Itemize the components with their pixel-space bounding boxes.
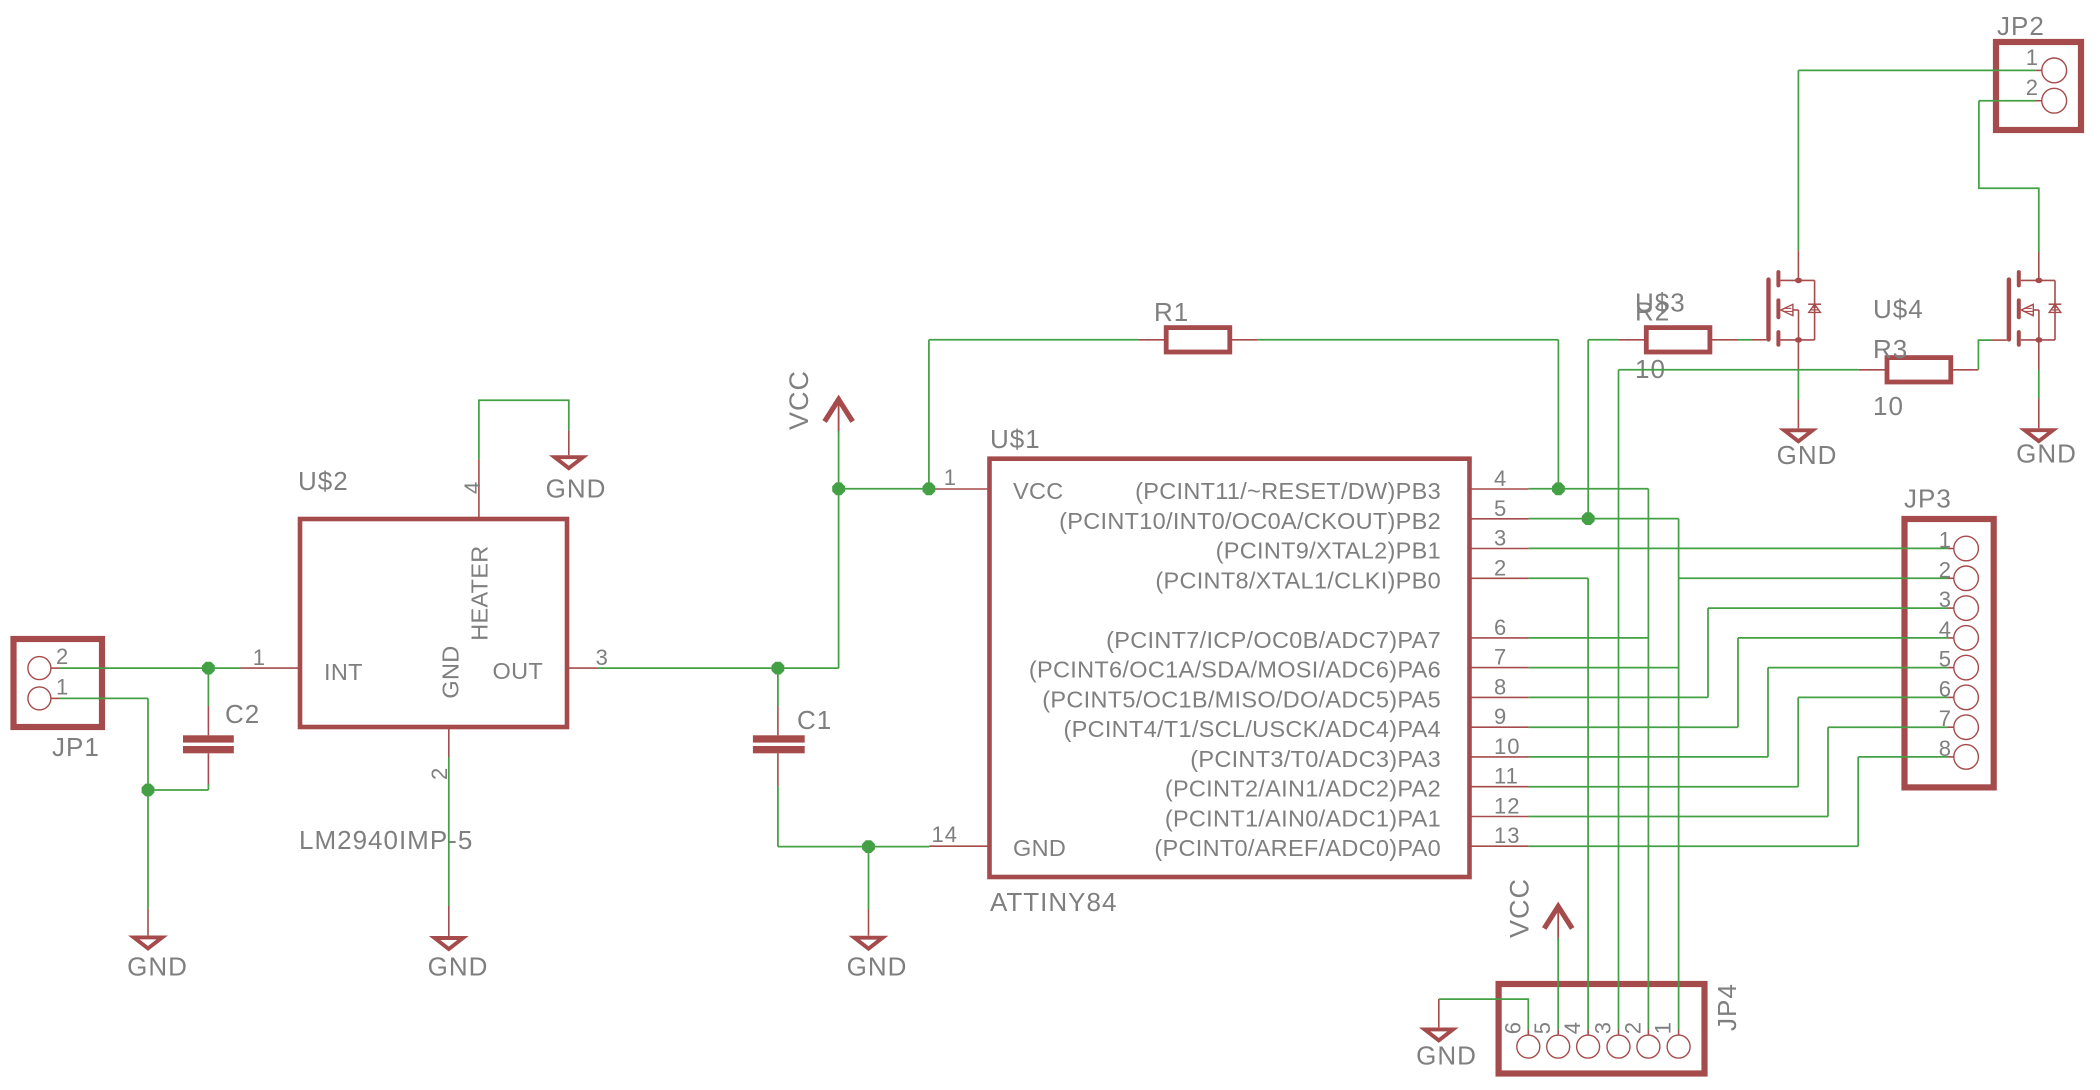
ground GND at U$2 pin2 label [428,951,489,981]
junction dot GND/C2 [142,784,155,797]
wire U$1 row 11 to staircase column [1529,816,1828,818]
regulator U$2 pin name GND [438,645,464,698]
connector JP3 pin 1 stub [1948,548,1954,550]
mcu U$1 pin 13 number [1494,823,1520,848]
junction dot R2/pin5 [1582,512,1595,525]
wire staircase to JP3 row [1768,667,1948,669]
transistor U$4 drain pin up [2038,252,2040,280]
wire staircase to JP3 row [1738,637,1948,639]
regulator U$2 pin 1 number [253,645,266,670]
resistor R2 value 10 [1635,354,1666,384]
mcu U$1 outline [990,459,1470,877]
resistor R1 label [1154,297,1189,327]
transistor U$3 drain junction dot [1795,278,1802,284]
svg-text:12: 12 [1494,794,1520,819]
ground GND at U$3 label [1777,440,1838,470]
connector JP4 pin 2 number [1620,1021,1645,1034]
connector JP3 pin 1 number [1939,528,1952,553]
svg-text:(PCINT2/AIN1/ADC2)PA2: (PCINT2/AIN1/ADC2)PA2 [1165,776,1441,802]
wire VCC to JP4 pin5 [1557,938,1559,1030]
connector JP3 pin 1 circle [1954,536,1979,561]
svg-text:C1: C1 [797,705,832,735]
connector JP1 name label [52,732,100,762]
connector JP4 pin 5 circle [1547,1035,1570,1058]
svg-text:8: 8 [1494,674,1507,699]
transistor U$4 source junction dot [2035,337,2042,343]
transistor U$3 drain link [1780,279,1814,281]
wire pin4 row to JP4 pin2 column [1529,488,1649,490]
supply VCC near U$1 label [784,370,814,430]
svg-text:U$1: U$1 [990,424,1041,454]
resistor R3 right stub [1951,369,1979,371]
svg-text:GND: GND [428,951,489,981]
wire R3 left column down to JP4 pin3 [1618,370,1620,1030]
mcu U$1 pin 12 number [1494,794,1520,819]
wire VCC rail up to R1 [928,340,930,489]
wire VOUT from U$2 OUT [597,667,839,669]
connector JP4 pin 4 circle [1577,1035,1600,1058]
regulator U$2 outline [300,519,567,727]
capacitor C2 bottom pin [207,753,209,786]
mcu U$1 pin name PA2 [1165,776,1441,802]
connector JP3 pin 7 stub [1948,726,1954,728]
capacitor C2 top pin [207,706,209,735]
svg-text:(PCINT10/INT0/OC0A/CKOUT)PB2: (PCINT10/INT0/OC0A/CKOUT)PB2 [1059,508,1441,534]
connector JP1 pin 1 circle [28,687,51,710]
svg-text:(PCINT3/T0/ADC3)PA3: (PCINT3/T0/ADC3)PA3 [1190,746,1441,772]
svg-text:(PCINT11/~RESET/DW)PB3: (PCINT11/~RESET/DW)PB3 [1135,478,1441,504]
capacitor C2 bottom plate [183,746,234,753]
connector JP4 pin 3 number [1591,1021,1616,1034]
wire U$1 row 12 to staircase column [1529,845,1859,847]
ground GND at JP1 pin stub [147,909,149,936]
mcu U$1 pin 7 stub [1470,667,1529,669]
resistor R3 body [1887,358,1951,382]
transistor U$3 channel source segment [1776,332,1780,345]
resistor R1 right stub [1230,339,1258,341]
svg-text:2: 2 [56,644,69,669]
mcu U$1 pin 8 number [1494,674,1507,699]
svg-text:1: 1 [1651,1021,1676,1034]
ground GND at C1 triangle [854,938,882,949]
wire C1 bottom to GND junction [778,846,869,848]
svg-text:2: 2 [1620,1021,1645,1034]
connector JP3 name label [1904,484,1952,514]
mcu U$1 pin 4 stub [1470,488,1529,490]
mcu U$1 pin name PA5 [1042,686,1441,712]
wire R1 column down to pin4 row [1557,340,1559,489]
regulator U$2 pin 2 GND stub [448,727,450,757]
connector JP4 pin 1 circle [1667,1035,1690,1058]
mcu U$1 pin 1 VCC stub [929,488,989,490]
connector JP3 pin 2 number [1939,557,1952,582]
transistor U$3 channel body segment [1776,300,1780,317]
svg-text:C2: C2 [225,699,260,729]
wire U$4 source to ground [2038,370,2040,399]
regulator U$2 pin 3 OUT stub [567,667,597,669]
mcu U$1 pin name VCC [1013,478,1064,504]
wire staircase to JP3 row [1828,726,1948,728]
transistor U$3 gate bar [1766,280,1770,340]
connector JP3 pin 3 stub [1948,607,1954,609]
svg-text:3: 3 [1494,526,1507,551]
wire pin2 row to JP4 pin4 column [1529,577,1589,579]
mcu U$1 pin 7 number [1494,645,1507,670]
mcu U$1 pin name PB2 [1059,508,1441,534]
wire VIN branch to C2 [207,668,209,706]
connector JP4 pin 6 stub [1527,1030,1529,1036]
mcu U$1 pin name PA1 [1165,806,1441,832]
ground GND at JP1 label [127,951,188,981]
ground GND at HEATER triangle [555,457,583,468]
transistor U$4 channel drain segment [2017,272,2021,285]
mcu U$1 pin name PA4 [1063,716,1441,742]
svg-text:JP1: JP1 [52,732,100,762]
svg-text:JP3: JP3 [1904,484,1952,514]
supply VCC near JP4 arrow [1544,907,1572,940]
mcu U$1 pin 6 number [1494,615,1507,640]
svg-text:6: 6 [1494,615,1507,640]
svg-text:5: 5 [1494,496,1507,521]
ground GND at U$4 stub [2038,399,2040,429]
ground GND at JP4 stub [1438,999,1440,1027]
wire staircase column x1828 up [1827,727,1829,816]
connector JP4 pin 1 number [1651,1021,1676,1034]
wire U$1 row 10 to staircase column [1529,786,1799,788]
svg-text:(PCINT7/ICP/OC0B/ADC7)PA7: (PCINT7/ICP/OC0B/ADC7)PA7 [1106,627,1441,653]
connector JP3 pin 7 circle [1954,715,1979,740]
svg-text:6: 6 [1500,1021,1525,1034]
ground GND at U$4 label [2016,438,2077,468]
svg-text:(PCINT6/OC1A/SDA/MOSI/ADC6)PA6: (PCINT6/OC1A/SDA/MOSI/ADC6)PA6 [1029,657,1441,683]
svg-text:U$4: U$4 [1873,294,1924,324]
wire U$1 row 8 to staircase column [1529,726,1738,728]
mcu U$1 pin name PA0 [1154,835,1441,861]
wire U$1 row 7 to staircase column [1529,696,1708,698]
capacitor C1 bottom pin [777,753,779,786]
connector JP3 pin 6 number [1939,676,1952,701]
wire staircase column x1738 up [1737,638,1739,727]
svg-text:10: 10 [1494,734,1520,759]
ground GND at JP1 triangle [134,937,162,948]
junction dot VOUT/C1 [772,662,785,675]
mcu U$1 pin name GND [1013,835,1066,861]
connector JP4 outline [1499,984,1705,1074]
transistor U$4 gate pin stub [1992,339,2007,341]
connector JP3 pin 2 stub [1948,577,1954,579]
connector JP2 pin 2 stub [2036,100,2042,102]
resistor R2 label [1635,297,1670,327]
wire C1 bottom down [777,786,779,847]
ground GND at U$2 pin2 triangle [435,938,463,949]
wire JP4 pin1 column down [1678,519,1680,1030]
resistor R1 body [1166,328,1230,352]
connector JP2 pin 1 stub [2036,69,2042,71]
connector JP1 pin 2 stub [51,667,59,669]
transistor U$3 source pin down [1797,340,1799,370]
svg-text:14: 14 [932,822,958,847]
wire pin5 row to JP4 pin1 column [1529,518,1679,520]
transistor U$3 name label [1635,288,1686,318]
connector JP3 pin 4 number [1939,617,1952,642]
svg-text:R3: R3 [1873,334,1908,364]
connector JP2 outline [1996,42,2081,130]
mcu U$1 pin 2 number [1494,555,1507,580]
capacitor C1 label [797,705,832,735]
transistor U$4 drain link [2021,279,2055,281]
connector JP1 pin 1 stub [51,697,59,699]
transistor U$3 bulk arrow [1781,304,1799,340]
wire GND to C2 bottom [207,784,209,790]
mcu U$1 pin 2 stub [1470,577,1529,579]
connector JP1 pin 2 label [56,644,69,669]
transistor U$3 body diode symbol [1808,304,1821,312]
wire JP4 pin2 column down [1647,489,1649,1030]
connector JP3 pin 6 circle [1954,685,1979,710]
mcu U$1 pin 14 number [932,822,958,847]
connector JP3 pin 3 number [1939,587,1952,612]
wire U$1 row 9 to staircase column [1529,756,1768,758]
resistor R3 label [1873,334,1908,364]
resistor R2 left stub [1619,339,1647,341]
svg-text:2: 2 [2026,75,2039,100]
mcu U$1 pin 3 number [1494,526,1507,551]
ground GND at HEATER stub [568,431,570,456]
connector JP3 pin 8 number [1939,736,1952,761]
mcu U$1 pin 1 number [944,465,957,490]
mcu U$1 pin 14 GND stub [929,845,989,847]
regulator U$2 pin name INT [324,659,363,685]
mcu U$1 pin 11 stub [1470,786,1529,788]
svg-text:GND: GND [127,951,188,981]
svg-text:3: 3 [596,645,609,670]
mcu U$1 pin name PA3 [1190,746,1441,772]
connector JP4 pin 2 circle [1637,1035,1660,1058]
wire GND down JP1 [147,698,149,790]
svg-text:(PCINT0/AREF/ADC0)PA0: (PCINT0/AREF/ADC0)PA0 [1154,835,1441,861]
wire PA6 row to column [1529,667,1679,669]
ground GND at JP4 triangle [1425,1029,1453,1040]
capacitor C1 top pin [777,706,779,735]
resistor R2 gate pin stub [1752,339,1766,341]
svg-text:(PCINT4/T1/SCL/USCK/ADC4)PA4: (PCINT4/T1/SCL/USCK/ADC4)PA4 [1063,716,1441,742]
svg-text:1: 1 [944,465,957,490]
wire staircase column x1708 up [1707,608,1709,697]
svg-text:7: 7 [1494,645,1507,670]
connector JP4 pin 2 stub [1647,1030,1649,1036]
ground GND at U$3 triangle [1784,430,1812,441]
connector JP4 name label [1712,983,1742,1031]
ground GND at U$4 triangle [2025,430,2053,441]
connector JP3 pin 8 stub [1948,756,1954,758]
connector JP3 pin 7 number [1939,706,1952,731]
supply VCC near U$1 arrow [825,400,853,433]
svg-text:U$2: U$2 [298,466,349,496]
svg-text:VCC: VCC [1013,478,1064,504]
connector JP2 pin 2 circle [2042,88,2067,113]
capacitor C2 label [225,699,260,729]
wire PA7 row to column [1529,637,1649,639]
wire GND junction down [868,847,870,909]
svg-text:(PCINT5/OC1B/MISO/DO/ADC5)PA5: (PCINT5/OC1B/MISO/DO/ADC5)PA5 [1042,686,1441,712]
wire JP2 pin2 segment a [1979,100,2036,102]
connector JP4 pin 5 number [1530,1021,1555,1034]
transistor U$4 source link [2021,339,2055,341]
svg-text:4: 4 [460,481,485,494]
svg-text:VCC: VCC [1505,878,1535,938]
transistor U$4 source pin down [2038,340,2040,370]
svg-text:GND: GND [1777,440,1838,470]
mcu U$1 pin name PB1 [1216,538,1441,564]
connector JP2 pin 1 circle [2042,58,2067,83]
regulator U$2 pin 4 HEATER stub [478,459,480,519]
transistor U$3 source link [1780,339,1814,341]
mcu U$1 pin 9 number [1494,704,1507,729]
ground GND at U$2 pin2 stub [448,906,450,936]
mcu U$1 pin 5 number [1494,496,1507,521]
svg-text:GND: GND [1013,835,1066,861]
connector JP3 pin 5 stub [1948,667,1954,669]
wire staircase to JP3 row [1858,756,1948,758]
connector JP4 pin 5 stub [1557,1030,1559,1036]
mcu U$1 pin name PB0 [1155,567,1441,593]
mcu U$1 pin 5 stub [1470,518,1529,520]
wire U$2 GND pin down [448,757,450,906]
connector JP4 pin 4 number [1560,1021,1585,1034]
wire staircase column x1798 up [1797,697,1799,786]
resistor R3 value 10 [1873,391,1904,421]
wire HEATER to GND [479,400,569,459]
wire VCC arrow drop [838,431,840,489]
connector JP3 pin 6 stub [1948,696,1954,698]
transistor U$4 gate bar [2007,280,2011,340]
connector JP3 pin 5 circle [1954,655,1979,680]
resistor R1 left stub [1139,339,1167,341]
wire GND junction to U$1 pin14 [869,846,930,848]
connector JP4 pin 6 number [1500,1021,1525,1034]
mcu U$1 pin name PA7 [1106,627,1441,653]
svg-text:GND: GND [847,951,908,981]
capacitor C1 bottom plate [753,746,805,753]
svg-text:R2: R2 [1635,297,1670,327]
connector JP3 pin 5 number [1939,647,1952,672]
ground GND at HEATER label [546,473,607,503]
connector JP4 pin 6 circle [1517,1035,1540,1058]
svg-text:4: 4 [1494,466,1507,491]
junction dot VCC/VOUT [832,482,845,495]
mcu U$1 pin 10 number [1494,734,1520,759]
svg-text:1: 1 [56,674,69,699]
svg-text:INT: INT [324,659,363,685]
mcu U$1 pin 8 stub [1470,696,1529,698]
wire staircase column x1768 up [1767,668,1769,757]
wire staircase to JP3 row [1798,696,1948,698]
transistor U$3 channel drain segment [1776,272,1780,285]
connector JP4 pin 4 stub [1587,1030,1589,1036]
svg-text:4: 4 [1560,1021,1585,1034]
wire U$3 source to ground [1797,370,1799,400]
ground GND at U$3 stub [1797,400,1799,429]
svg-text:(PCINT9/XTAL2)PB1: (PCINT9/XTAL2)PB1 [1216,538,1441,564]
resistor R2 body [1646,328,1710,352]
svg-text:R1: R1 [1154,297,1189,327]
wire VOUT up to VCC rail [838,489,840,668]
transistor U$3 body diode line [1814,280,1816,340]
connector JP3 pin 8 circle [1954,745,1979,770]
connector JP4 pin 3 stub [1618,1030,1620,1036]
wire JP3 pin2 row [1679,577,1948,579]
wire GND down to symbol [147,790,149,909]
svg-text:GND: GND [2016,438,2077,468]
wire R3 right to U$4 gate [1978,340,1992,370]
connector JP3 pin 3 circle [1954,596,1979,621]
wire JP2 pin1 column down to U$3 drain [1797,70,1799,250]
mcu U$1 pin 9 stub [1470,726,1529,728]
transistor U$4 body diode symbol [2049,304,2062,312]
ground GND at C1 label [847,951,908,981]
transistor U$3 drain pin up [1797,251,1799,281]
svg-text:3: 3 [1591,1021,1616,1034]
wire JP2 pin2 segment b [1979,101,2039,252]
regulator U$2 name label [298,466,349,496]
connector JP1 outline [14,639,103,727]
capacitor C2 top plate [183,735,234,742]
mcu U$1 pin 11 number [1494,764,1519,789]
wire VCC rail to R1 left [929,339,1139,341]
regulator U$2 value label LM2940IMP-5 [299,825,473,855]
mcu U$1 pin 13 stub [1470,845,1529,847]
ground GND at JP4 label [1416,1041,1477,1071]
svg-text:5: 5 [1530,1021,1555,1034]
ground GND at C1 stub [868,909,870,936]
transistor U$4 body diode line [2054,280,2056,340]
wire GND to C2 bottom [148,789,208,791]
resistor R2 right stub [1710,339,1738,341]
svg-text:OUT: OUT [492,658,543,684]
mcu U$1 name label [990,424,1041,454]
wire R2 column up [1587,340,1589,519]
junction dot R1/pin4 [1552,482,1565,495]
wire VCC rail to U$1 pin1 [839,488,930,490]
regulator U$2 pin 1 INT stub [241,667,301,669]
svg-text:GND: GND [438,645,464,698]
wire R3 left row [1619,369,1859,371]
svg-text:VCC: VCC [784,370,814,430]
regulator U$2 pin 2 number [427,767,452,780]
svg-text:9: 9 [1494,704,1507,729]
connector JP3 pin 2 circle [1954,566,1979,591]
wire VIN from JP1 pin 2 [59,667,241,669]
svg-text:(PCINT1/AIN0/ADC1)PA1: (PCINT1/AIN0/ADC1)PA1 [1165,806,1441,832]
wire R1 right to pin4 column [1257,339,1558,341]
junction dot VCC/R1/pin1 [923,482,936,495]
connector JP2 pin 2 number [2026,75,2039,100]
connector JP3 pin 4 circle [1954,626,1979,651]
transistor U$4 drain junction dot [2035,278,2042,284]
mcu U$1 pin name PA6 [1029,657,1441,683]
regulator U$2 pin 3 number [596,645,609,670]
connector JP3 outline [1905,519,1994,787]
wire JP4 pin4 column down [1587,578,1589,1029]
wire staircase column x1858 up [1857,757,1859,846]
svg-text:11: 11 [1494,764,1519,789]
resistor R3 left stub [1859,369,1887,371]
svg-text:1: 1 [2026,45,2039,70]
wire R2 column to R2 left [1588,339,1618,341]
mcu U$1 pin name PB3 [1135,478,1441,504]
transistor U$4 channel body segment [2017,300,2021,317]
svg-text:(PCINT8/XTAL1/CLKI)PB0: (PCINT8/XTAL1/CLKI)PB0 [1155,567,1441,593]
